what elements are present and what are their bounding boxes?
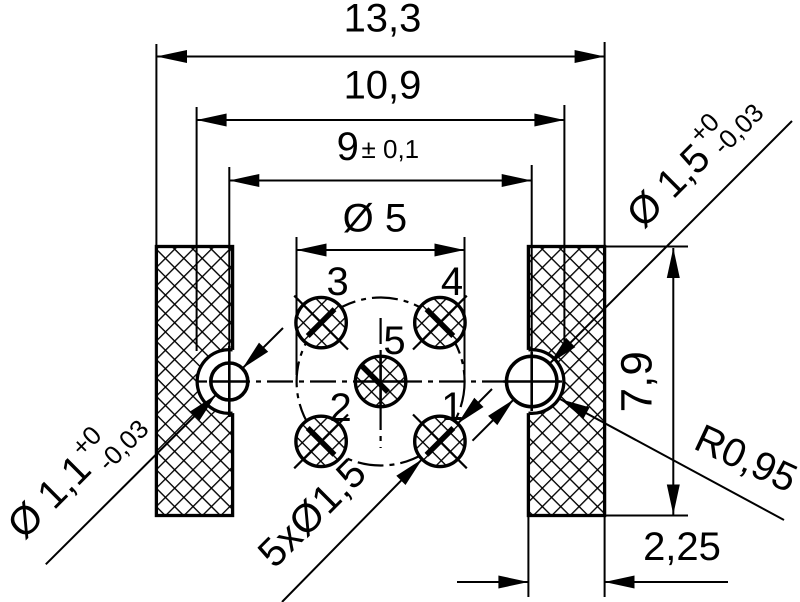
svg-text:± 0,1: ± 0,1 [362, 134, 420, 164]
svg-text:1: 1 [441, 385, 463, 429]
svg-text:3: 3 [326, 260, 348, 304]
svg-text:Ø 5: Ø 5 [343, 197, 407, 241]
svg-text:10,9: 10,9 [344, 64, 422, 108]
svg-text:4: 4 [441, 260, 463, 304]
svg-text:7,9: 7,9 [613, 351, 662, 412]
svg-text:9: 9 [337, 125, 359, 169]
svg-text:13,3: 13,3 [344, 0, 422, 41]
svg-text:2: 2 [329, 386, 351, 430]
svg-text:2,25: 2,25 [643, 525, 721, 569]
svg-text:5: 5 [383, 319, 405, 363]
